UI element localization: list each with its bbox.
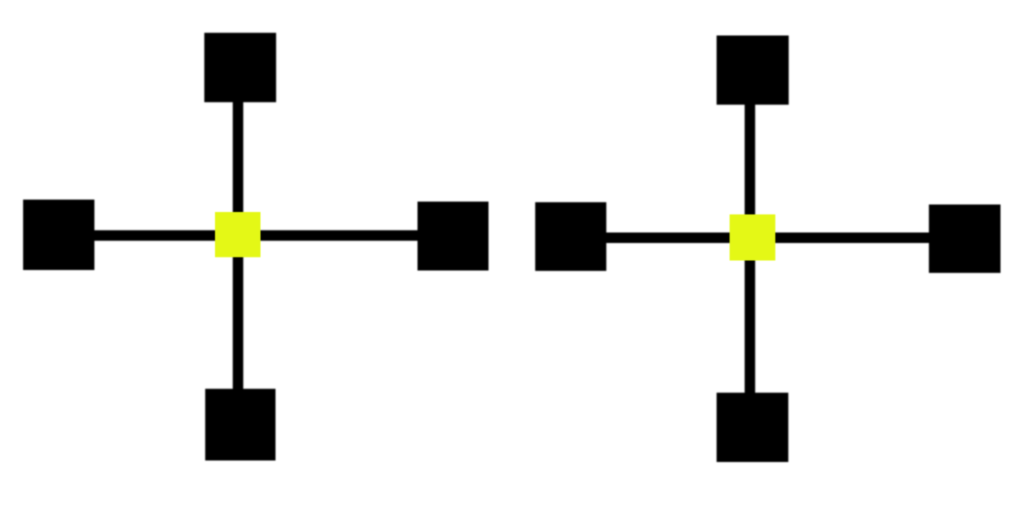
wire: star B horizontal edge (left node to right node through hub) [571, 233, 965, 244]
node B-right (black square) [929, 205, 1001, 273]
wire: star A vertical edge (top node to bottom node through hub) [233, 68, 244, 425]
hub node B (yellow square) [730, 214, 776, 260]
node A-right (black square) [418, 202, 489, 271]
node A-left (black square) [23, 200, 94, 270]
wire: star A horizontal edge (left node to right node through hub) [59, 230, 453, 241]
wire: star B vertical edge (top node to bottom node through hub) [745, 71, 756, 428]
hub node A (yellow square) [215, 212, 261, 257]
node A-top (black square) [204, 33, 276, 102]
node B-bottom (black square) [717, 393, 789, 462]
node B-left (black square) [535, 202, 606, 271]
node B-top (black square) [717, 36, 789, 105]
node A-bottom (black square) [205, 389, 275, 461]
